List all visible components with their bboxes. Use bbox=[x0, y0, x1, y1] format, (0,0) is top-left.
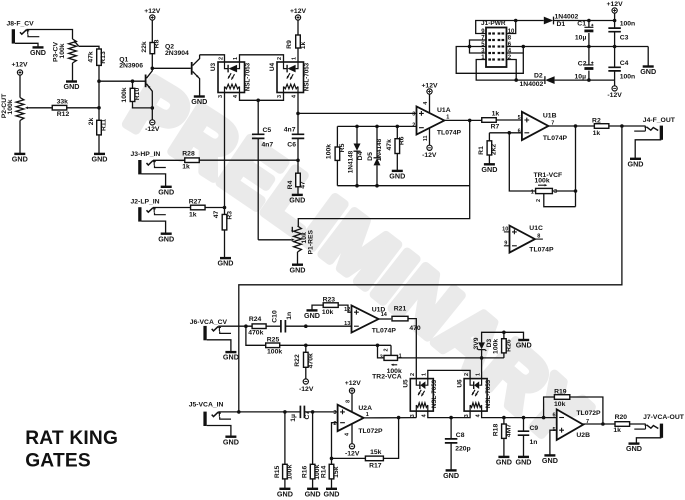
svg-text:2: 2 bbox=[333, 421, 336, 427]
svg-text:2N3906: 2N3906 bbox=[119, 63, 143, 70]
svg-text:GND: GND bbox=[12, 155, 28, 164]
ground bbox=[279, 488, 290, 490]
wire bbox=[79, 46, 99, 49]
svg-text:47: 47 bbox=[213, 211, 220, 219]
wire bbox=[523, 46, 648, 48]
svg-text:R18: R18 bbox=[493, 424, 500, 437]
svg-text:GND: GND bbox=[223, 437, 239, 446]
svg-text:GND: GND bbox=[305, 489, 321, 498]
node bbox=[601, 422, 605, 426]
svg-text:-12V: -12V bbox=[145, 126, 160, 133]
node bbox=[355, 125, 359, 129]
svg-text:3V9: 3V9 bbox=[473, 337, 480, 349]
svg-text:U4: U4 bbox=[269, 62, 276, 71]
svg-text:R8: R8 bbox=[153, 39, 160, 48]
svg-text:R7: R7 bbox=[491, 123, 500, 130]
wire bbox=[72, 63, 74, 81]
svg-text:U2A: U2A bbox=[358, 405, 372, 412]
resistor R22 470k bbox=[305, 345, 307, 352]
wire bbox=[239, 126, 622, 412]
svg-text:GND: GND bbox=[92, 155, 108, 164]
svg-text:R28: R28 bbox=[182, 151, 195, 158]
svg-text:+12V: +12V bbox=[144, 8, 161, 15]
zener D3 3V9 bbox=[481, 350, 483, 358]
resistor R4 47 bbox=[297, 160, 299, 173]
wire bbox=[142, 221, 166, 233]
ground bbox=[161, 186, 172, 188]
svg-text:2: 2 bbox=[536, 199, 542, 202]
wire bbox=[297, 138, 299, 160]
resistor R20 1k bbox=[615, 422, 630, 427]
svg-text:GATES: GATES bbox=[25, 450, 91, 471]
svg-text:3: 3 bbox=[277, 95, 283, 98]
svg-text:8: 8 bbox=[345, 400, 351, 403]
svg-text:3: 3 bbox=[333, 410, 336, 416]
wire bbox=[609, 125, 646, 127]
resistor R18 4M7 bbox=[503, 418, 505, 424]
svg-text:J5-VCA_IN: J5-VCA_IN bbox=[189, 402, 224, 409]
svg-text:TR2-VCA: TR2-VCA bbox=[372, 373, 402, 380]
wire bbox=[98, 65, 100, 120]
svg-text:TL074P: TL074P bbox=[437, 129, 462, 136]
capacitor C7 1u bbox=[300, 406, 304, 419]
resistor R1 2k2 bbox=[488, 133, 490, 141]
node bbox=[296, 159, 300, 163]
svg-text:R23: R23 bbox=[323, 297, 336, 304]
svg-text:100k: 100k bbox=[59, 43, 66, 58]
svg-text:J1-PWR: J1-PWR bbox=[481, 20, 506, 27]
wire bbox=[298, 112, 417, 114]
wire bbox=[200, 55, 225, 62]
wire bbox=[332, 423, 338, 459]
pin U6.4 wire bbox=[482, 411, 557, 418]
node bbox=[151, 67, 155, 71]
svg-text:3: 3 bbox=[410, 414, 416, 417]
node bbox=[355, 184, 359, 188]
svg-text:C8: C8 bbox=[456, 432, 465, 439]
svg-text:TL072P: TL072P bbox=[576, 410, 601, 417]
svg-text:J3-HP_IN: J3-HP_IN bbox=[131, 151, 161, 158]
svg-text:1: 1 bbox=[292, 57, 298, 60]
ground bbox=[292, 264, 303, 266]
svg-text:D2: D2 bbox=[534, 73, 543, 80]
svg-text:1: 1 bbox=[475, 373, 481, 376]
wire bbox=[444, 119, 482, 121]
svg-text:10k: 10k bbox=[322, 309, 334, 316]
svg-text:100k: 100k bbox=[121, 87, 128, 102]
svg-text:D1: D1 bbox=[557, 21, 566, 28]
svg-text:15k: 15k bbox=[333, 466, 340, 478]
wire bbox=[205, 207, 225, 209]
svg-text:1k: 1k bbox=[189, 211, 197, 218]
svg-text:3: 3 bbox=[412, 112, 415, 118]
wire bbox=[506, 60, 516, 81]
svg-text:1n: 1n bbox=[286, 312, 293, 320]
svg-text:1k: 1k bbox=[492, 111, 500, 118]
wire bbox=[589, 20, 615, 22]
opto-coupler U4 NSL-7053 bbox=[277, 62, 304, 93]
ground bbox=[392, 170, 403, 172]
resistor R27 1k bbox=[191, 205, 206, 210]
capacitor C6 4n7 bbox=[297, 113, 299, 134]
svg-text:4: 4 bbox=[345, 432, 351, 436]
wire bbox=[67, 107, 99, 109]
svg-text:22k: 22k bbox=[141, 41, 148, 53]
capacitor C10 1n bbox=[266, 325, 281, 327]
svg-text:J6-VCA_CV: J6-VCA_CV bbox=[190, 319, 228, 326]
ground bbox=[484, 163, 495, 165]
svg-text:100k: 100k bbox=[535, 177, 550, 184]
svg-text:2N3904: 2N3904 bbox=[165, 50, 189, 57]
svg-text:4: 4 bbox=[423, 101, 429, 105]
wire bbox=[280, 344, 391, 346]
pin U5.3 wire bbox=[415, 411, 417, 418]
svg-text:C4: C4 bbox=[620, 60, 629, 67]
power -12V bbox=[351, 424, 353, 444]
svg-text:NSL-7053: NSL-7053 bbox=[303, 62, 310, 91]
svg-text:1N4148: 1N4148 bbox=[348, 150, 355, 173]
wire bbox=[364, 417, 417, 419]
svg-text:U1D: U1D bbox=[372, 306, 386, 313]
svg-text:J4-F_OUT: J4-F_OUT bbox=[643, 117, 676, 124]
svg-text:100k: 100k bbox=[326, 144, 333, 159]
wire bbox=[337, 125, 416, 127]
svg-text:R2: R2 bbox=[592, 118, 601, 125]
svg-text:100k: 100k bbox=[492, 339, 499, 354]
node bbox=[97, 79, 101, 83]
node bbox=[468, 119, 472, 123]
svg-text:R11: R11 bbox=[100, 119, 107, 131]
wire bbox=[152, 67, 191, 69]
svg-text:J8-F_CV: J8-F_CV bbox=[7, 21, 35, 28]
svg-text:TL072P: TL072P bbox=[358, 428, 383, 435]
svg-text:GND: GND bbox=[304, 311, 320, 320]
resistor R8 22k bbox=[150, 43, 155, 54]
svg-text:R21: R21 bbox=[394, 305, 407, 312]
node bbox=[449, 416, 453, 420]
svg-text:R25: R25 bbox=[267, 336, 280, 343]
wire bbox=[636, 438, 661, 443]
node bbox=[97, 106, 101, 110]
node bbox=[502, 331, 506, 335]
ground bbox=[518, 456, 529, 458]
wire bbox=[99, 80, 145, 82]
wire bbox=[470, 46, 487, 48]
ground bbox=[307, 488, 318, 490]
node bbox=[304, 324, 308, 328]
node bbox=[522, 45, 526, 49]
node bbox=[151, 106, 155, 110]
svg-text:GND: GND bbox=[516, 341, 532, 350]
ground bbox=[630, 158, 641, 160]
svg-text:1k: 1k bbox=[300, 42, 307, 50]
wire bbox=[142, 174, 166, 186]
svg-text:4: 4 bbox=[422, 413, 428, 417]
node bbox=[587, 19, 591, 23]
wire bbox=[552, 190, 575, 192]
wire bbox=[297, 187, 299, 195]
svg-text:R22: R22 bbox=[294, 354, 301, 367]
svg-text:1: 1 bbox=[446, 115, 449, 121]
ground bbox=[307, 309, 318, 311]
wire bbox=[246, 326, 266, 345]
resistor R28 1k bbox=[185, 158, 200, 163]
node bbox=[237, 410, 241, 414]
svg-text:1n: 1n bbox=[530, 439, 538, 446]
svg-text:1N4002: 1N4002 bbox=[520, 81, 544, 88]
svg-text:R24: R24 bbox=[249, 316, 262, 323]
wire bbox=[218, 411, 300, 413]
svg-text:2: 2 bbox=[464, 373, 470, 376]
svg-text:-12V: -12V bbox=[607, 92, 622, 99]
node bbox=[296, 112, 300, 116]
wire bbox=[199, 159, 298, 161]
svg-text:TL074P: TL074P bbox=[529, 246, 554, 253]
svg-text:GND: GND bbox=[158, 234, 174, 243]
svg-text:-12V: -12V bbox=[299, 386, 314, 393]
svg-text:C9: C9 bbox=[530, 425, 539, 432]
svg-text:470: 470 bbox=[409, 325, 421, 332]
wire bbox=[506, 21, 516, 34]
potentiometer P3-CV 100k bbox=[69, 39, 77, 63]
pin U3.3 wire bbox=[224, 93, 226, 208]
wire bbox=[378, 345, 385, 358]
node bbox=[620, 124, 624, 128]
svg-text:J2-LP_IN: J2-LP_IN bbox=[131, 199, 160, 206]
node bbox=[244, 324, 248, 328]
svg-text:U1A: U1A bbox=[437, 107, 451, 114]
capacitor C2 10u bbox=[588, 47, 590, 65]
svg-text:10: 10 bbox=[502, 227, 508, 233]
svg-text:100n: 100n bbox=[620, 20, 636, 27]
ground bbox=[292, 194, 303, 196]
svg-text:1k: 1k bbox=[613, 427, 621, 434]
svg-text:12: 12 bbox=[344, 307, 350, 313]
svg-text:GND: GND bbox=[516, 458, 532, 467]
pin U3.1 wire bbox=[240, 55, 284, 62]
resistor R9 1k bbox=[296, 35, 301, 48]
svg-text:+12V: +12V bbox=[11, 62, 28, 69]
svg-text:U1C: U1C bbox=[529, 225, 543, 232]
svg-text:2: 2 bbox=[384, 348, 390, 351]
svg-text:47: 47 bbox=[300, 181, 307, 189]
wire bbox=[496, 119, 522, 121]
resistor R12 33k bbox=[52, 105, 67, 110]
resistor R21 470 bbox=[392, 316, 408, 321]
svg-text:J7-VCA-OUT: J7-VCA-OUT bbox=[643, 414, 685, 421]
wire bbox=[258, 239, 291, 241]
svg-text:470k: 470k bbox=[248, 330, 263, 337]
svg-text:11: 11 bbox=[423, 135, 429, 141]
svg-text:2: 2 bbox=[412, 122, 415, 128]
watermark PRELIMINARY bbox=[122, 122, 572, 462]
wire bbox=[19, 121, 21, 154]
svg-text:D4: D4 bbox=[357, 151, 364, 160]
node bbox=[397, 416, 401, 420]
svg-text:GND: GND bbox=[542, 456, 558, 465]
resistor R14 15k bbox=[331, 458, 333, 464]
power -12V bbox=[303, 379, 308, 384]
resistor R17 15k bbox=[365, 456, 383, 461]
wire bbox=[98, 135, 100, 153]
svg-text:15k: 15k bbox=[370, 449, 382, 456]
svg-text:GND: GND bbox=[628, 159, 644, 168]
op-amp U1A TL074P bbox=[417, 107, 445, 135]
diode D5 1N4148 bbox=[376, 126, 378, 157]
svg-text:1: 1 bbox=[531, 189, 534, 195]
wire bbox=[218, 325, 252, 327]
svg-text:1k: 1k bbox=[182, 164, 190, 171]
svg-text:GND: GND bbox=[218, 259, 234, 268]
svg-text:2: 2 bbox=[410, 373, 416, 376]
ground bbox=[94, 153, 105, 155]
svg-text:4n7: 4n7 bbox=[262, 141, 274, 148]
power -12V bbox=[614, 80, 616, 86]
svg-text:U1B: U1B bbox=[543, 113, 557, 120]
svg-text:8: 8 bbox=[508, 35, 512, 41]
resistor R5 100k bbox=[336, 126, 338, 147]
ground bbox=[504, 332, 524, 339]
svg-text:100k: 100k bbox=[267, 349, 282, 356]
svg-text:GND: GND bbox=[640, 67, 656, 76]
resistor R6 47k bbox=[396, 126, 398, 138]
node bbox=[223, 206, 227, 210]
wire bbox=[398, 357, 504, 359]
wire bbox=[151, 20, 153, 42]
wire bbox=[297, 252, 299, 264]
svg-text:R19: R19 bbox=[554, 388, 567, 395]
svg-text:5: 5 bbox=[518, 115, 521, 121]
wire bbox=[19, 75, 21, 97]
svg-text:R15: R15 bbox=[274, 465, 281, 478]
svg-text:GND: GND bbox=[277, 489, 293, 498]
ground bbox=[446, 469, 457, 471]
node bbox=[587, 78, 591, 82]
svg-text:U2B: U2B bbox=[576, 432, 590, 439]
svg-text:TL074P: TL074P bbox=[543, 135, 568, 142]
ground bbox=[647, 47, 649, 66]
node bbox=[502, 416, 506, 420]
pin U6.1 wire bbox=[481, 358, 483, 379]
svg-text:R4: R4 bbox=[287, 180, 294, 189]
node bbox=[468, 45, 472, 49]
capacitor C3 100n bbox=[614, 21, 616, 29]
node bbox=[131, 79, 135, 83]
op-amp U1D TL074P bbox=[352, 306, 379, 333]
svg-text:9: 9 bbox=[504, 241, 507, 247]
svg-text:100n: 100n bbox=[620, 74, 636, 81]
wire bbox=[408, 319, 416, 379]
svg-text:GND: GND bbox=[289, 196, 305, 205]
capacitor C9 1n bbox=[523, 418, 525, 432]
svg-text:C3: C3 bbox=[620, 34, 629, 41]
node bbox=[304, 344, 308, 348]
svg-text:P1-RES: P1-RES bbox=[307, 229, 314, 254]
svg-text:10µ: 10µ bbox=[575, 34, 587, 41]
resistor R10 100k bbox=[130, 88, 135, 101]
svg-text:R5: R5 bbox=[339, 143, 346, 152]
ground bbox=[629, 442, 640, 444]
power -12V bbox=[151, 108, 153, 120]
wire bbox=[575, 126, 577, 207]
svg-text:R14: R14 bbox=[320, 465, 327, 478]
svg-text:4: 4 bbox=[292, 94, 298, 98]
opto-coupler U5 NSL-7053 bbox=[410, 379, 433, 412]
wire bbox=[15, 43, 38, 47]
svg-text:47k: 47k bbox=[88, 51, 95, 63]
wire bbox=[297, 20, 299, 35]
diode D2 1N4002 bbox=[516, 79, 545, 81]
svg-text:100k: 100k bbox=[7, 99, 14, 114]
wire bbox=[509, 133, 535, 191]
wire bbox=[337, 185, 469, 187]
op-amp U2A TL072P bbox=[338, 405, 364, 431]
node bbox=[480, 356, 484, 360]
svg-text:3: 3 bbox=[218, 95, 224, 98]
svg-text:4: 4 bbox=[233, 94, 239, 98]
resistor R16 100k bbox=[312, 412, 314, 464]
svg-text:10k: 10k bbox=[554, 401, 566, 408]
svg-text:C10: C10 bbox=[271, 310, 278, 323]
svg-text:470k: 470k bbox=[308, 353, 315, 368]
wire bbox=[132, 81, 134, 88]
svg-text:R12: R12 bbox=[57, 111, 70, 118]
svg-text:100k: 100k bbox=[286, 464, 293, 479]
pin U4.1 wire bbox=[297, 48, 299, 62]
node bbox=[508, 131, 512, 135]
resistor R7 1k bbox=[482, 118, 497, 123]
svg-text:U6: U6 bbox=[456, 379, 463, 388]
node bbox=[256, 99, 260, 103]
svg-text:47k: 47k bbox=[386, 139, 393, 151]
resistor R24 470k bbox=[252, 324, 266, 329]
svg-text:R17: R17 bbox=[369, 463, 382, 470]
svg-text:R13: R13 bbox=[100, 51, 107, 64]
svg-text:1N4148: 1N4148 bbox=[376, 138, 383, 161]
wire bbox=[153, 207, 191, 209]
svg-text:R26: R26 bbox=[505, 339, 512, 352]
trimmer TR2-VCA 100k bbox=[384, 355, 398, 360]
svg-text:13: 13 bbox=[344, 321, 350, 327]
svg-text:GND: GND bbox=[290, 265, 306, 274]
resistor R25 100k bbox=[266, 343, 280, 348]
svg-text:GND: GND bbox=[191, 97, 207, 106]
svg-text:2: 2 bbox=[277, 57, 283, 60]
svg-text:GND: GND bbox=[30, 48, 46, 57]
ground bbox=[161, 232, 172, 234]
wire bbox=[476, 21, 516, 34]
svg-text:-12V: -12V bbox=[422, 152, 437, 159]
node bbox=[514, 19, 518, 23]
svg-text:R9: R9 bbox=[286, 40, 293, 49]
ground bbox=[220, 257, 231, 259]
capacitor C5 4n7 bbox=[257, 100, 259, 134]
svg-text:NSL-7053: NSL-7053 bbox=[431, 379, 438, 408]
resistor R2 1k bbox=[594, 124, 609, 129]
wire bbox=[224, 230, 226, 258]
op-amp U2B TL072P bbox=[557, 409, 584, 440]
op-amp U1C TL074P bbox=[510, 226, 535, 253]
svg-text:2: 2 bbox=[218, 57, 224, 60]
svg-text:GND: GND bbox=[223, 353, 239, 362]
svg-text:+12V: +12V bbox=[345, 380, 362, 387]
op-amp U1B TL074P bbox=[522, 112, 549, 140]
resistor R23 10k bbox=[323, 303, 338, 308]
svg-text:4: 4 bbox=[475, 413, 481, 417]
resistor R11 2k bbox=[97, 120, 102, 135]
ground bbox=[225, 436, 236, 438]
resistor R26 100k bbox=[503, 353, 505, 358]
